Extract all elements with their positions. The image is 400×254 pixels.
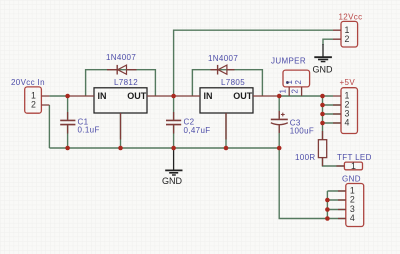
svg-text:4: 4: [345, 118, 350, 128]
junction node C3 top: [277, 94, 282, 99]
connector 12Vcc: [333, 13, 362, 48]
svg-text:1N4007: 1N4007: [106, 53, 136, 62]
svg-text:L7805: L7805: [221, 78, 245, 87]
junction node U1 gnd: [118, 146, 123, 151]
svg-text:1: 1: [279, 89, 288, 94]
junction node GND pin4: [325, 216, 330, 221]
svg-text:2: 2: [350, 195, 355, 205]
junction node C2 top / 12V feed: [171, 94, 176, 99]
svg-text:L7812: L7812: [114, 78, 138, 87]
wire ground rail down-right to GND connector: [279, 148, 327, 219]
junction node C1 bottom: [65, 146, 70, 151]
svg-text:GND: GND: [162, 176, 183, 186]
svg-text:100R: 100R: [295, 153, 316, 162]
capacitor C1 0.1uF: [60, 112, 100, 135]
diode D1 1N4007: [106, 53, 137, 75]
ground symbol under 12Vcc: [313, 44, 334, 74]
wire 20Vcc pin2 to ground rail: [48, 105, 50, 148]
connector TFT LED: [336, 153, 371, 171]
svg-text:2: 2: [291, 89, 300, 94]
svg-text:0,47uF: 0,47uF: [184, 126, 211, 135]
wire main rail 20V/12V/5V y=96: [49, 95, 333, 97]
junction node +5V pin3: [320, 112, 325, 117]
connector X1 20Vcc In: [11, 78, 49, 113]
diode D2 1N4007: [208, 54, 238, 75]
wire resistor to TFT LED: [323, 158, 345, 166]
svg-text:0.1uF: 0.1uF: [78, 126, 100, 135]
jumper JP1: [271, 57, 310, 97]
svg-text:12Vcc: 12Vcc: [339, 13, 363, 22]
svg-text:1: 1: [285, 80, 294, 85]
voltage regulator U2 L7805: [174, 78, 280, 140]
svg-text:GND: GND: [342, 174, 361, 183]
wire 12V feed to 12Vcc connector: [174, 30, 333, 96]
svg-text:4: 4: [350, 213, 355, 223]
junction node +5V pin2: [320, 103, 325, 108]
svg-text:+5V: +5V: [340, 78, 356, 87]
junction node C2 bottom: [171, 146, 176, 151]
junction node U2 gnd: [224, 146, 229, 151]
capacitor C2 0,47uF: [166, 112, 211, 135]
voltage regulator U1 L7812: [68, 78, 174, 140]
svg-text:JUMPER: JUMPER: [271, 57, 306, 66]
wire ground rail bottom: [49, 147, 279, 149]
wire C1 column: [67, 96, 69, 148]
svg-text:2: 2: [294, 80, 303, 85]
svg-text:2: 2: [345, 34, 350, 44]
capacitor C3 100uF polarized: [271, 111, 314, 136]
ground symbol under C2 junction: [162, 148, 183, 186]
wire +5V pin wires: [323, 105, 342, 123]
svg-text:GND: GND: [313, 64, 334, 74]
wire bypass loop around U1: [86, 70, 156, 96]
svg-text:2: 2: [31, 100, 36, 110]
svg-text:OUT: OUT: [233, 91, 253, 101]
wire bypass loop around U2: [192, 70, 262, 96]
wire C3 column: [278, 96, 280, 148]
wire U2 ground pin to rail: [225, 113, 227, 148]
junction node C1 top: [65, 94, 70, 99]
junction node +5V pin4: [320, 121, 325, 126]
junction node GND pin2: [325, 198, 330, 203]
wire U1 ground pin to rail: [120, 113, 122, 148]
svg-text:1N4007: 1N4007: [208, 54, 238, 63]
connector +5V: [333, 78, 358, 133]
wire C2 column: [173, 96, 175, 148]
resistor R1 100R: [295, 131, 327, 166]
svg-text:20Vcc In: 20Vcc In: [11, 78, 45, 87]
svg-text:100uF: 100uF: [290, 127, 314, 136]
wire GND connector bus: [327, 191, 345, 219]
junction node +5V pin1: [320, 94, 325, 99]
svg-text:IN: IN: [98, 91, 107, 101]
junction node GND pin3: [325, 207, 330, 212]
svg-text:OUT: OUT: [127, 91, 147, 101]
wire 12Vcc pin2 to ground symbol: [323, 39, 333, 45]
svg-text:IN: IN: [204, 91, 213, 101]
svg-text:1: 1: [351, 161, 356, 171]
junction node C3 bottom: [277, 146, 282, 151]
connector GND: [338, 174, 364, 226]
wire +5V bus down to resistor: [322, 96, 324, 140]
